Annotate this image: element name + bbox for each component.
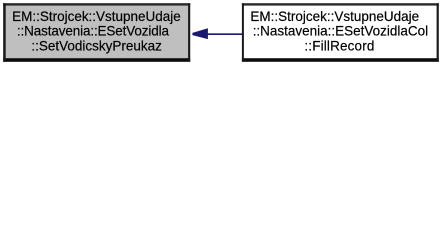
- svg-text:::FillRecord: ::FillRecord: [304, 38, 374, 53]
- svg-text:EM::Strojcek::VstupneUdaje: EM::Strojcek::VstupneUdaje: [12, 9, 181, 24]
- svg-text:::Nastavenia::ESetVozidlaCol: ::Nastavenia::ESetVozidlaCol: [253, 23, 428, 38]
- svg-text:::SetVodicskyPreukaz: ::SetVodicskyPreukaz: [31, 38, 162, 53]
- svg-text:::Nastavenia::ESetVozidla: ::Nastavenia::ESetVozidla: [17, 23, 169, 38]
- svg-text:EM::Strojcek::VstupneUdaje: EM::Strojcek::VstupneUdaje: [250, 9, 419, 24]
